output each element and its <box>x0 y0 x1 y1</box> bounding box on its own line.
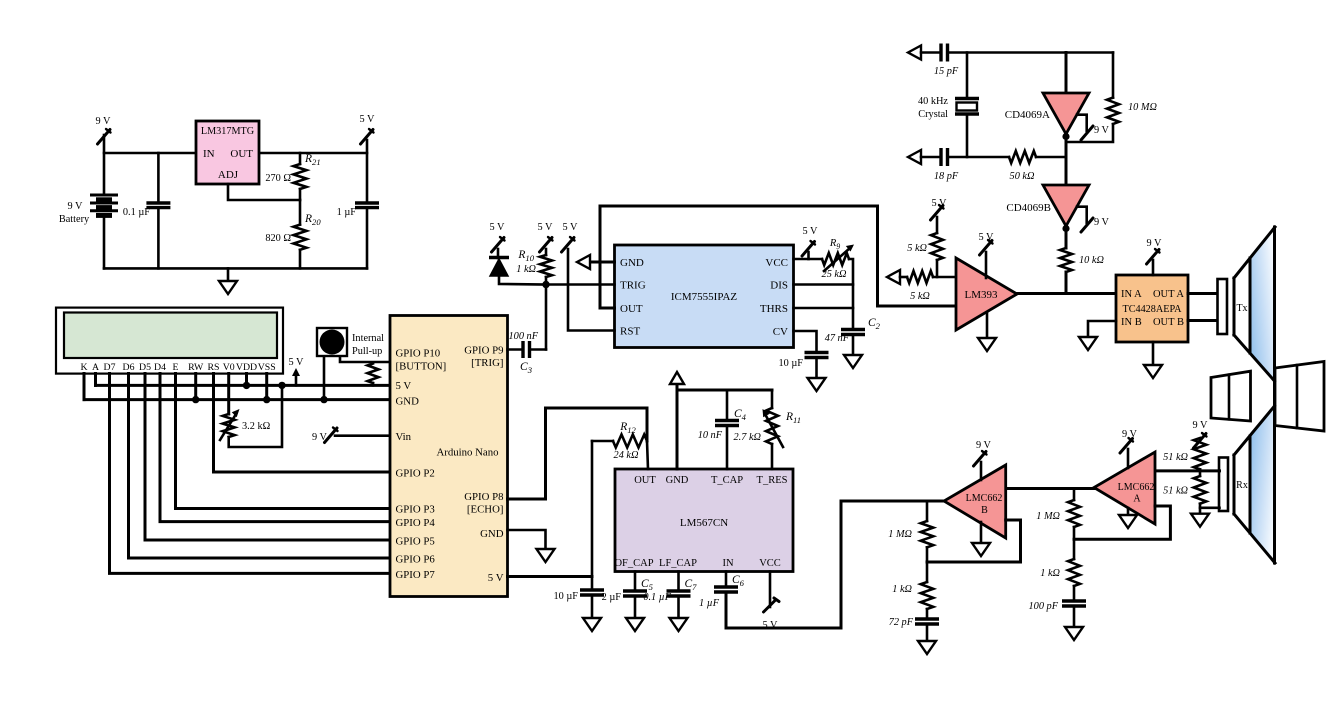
svg-text:LF_CAP: LF_CAP <box>659 558 697 569</box>
svg-text:1 µF: 1 µF <box>337 207 357 218</box>
svg-text:3.2 kΩ: 3.2 kΩ <box>242 421 271 432</box>
svg-text:OUT: OUT <box>620 303 643 315</box>
svg-text:9 V: 9 V <box>1147 238 1163 249</box>
svg-text:GPIO P3: GPIO P3 <box>396 504 435 516</box>
svg-text:GND: GND <box>480 528 504 540</box>
svg-text:IN A: IN A <box>1121 289 1142 300</box>
svg-text:D5: D5 <box>139 362 151 373</box>
svg-text:ADJ: ADJ <box>218 169 239 181</box>
svg-text:5 V: 5 V <box>289 357 305 368</box>
svg-text:CD4069A: CD4069A <box>1005 109 1050 121</box>
svg-text:IN B: IN B <box>1121 317 1142 328</box>
svg-text:100 pF: 100 pF <box>1029 601 1059 612</box>
svg-text:GPIO P10: GPIO P10 <box>396 348 441 360</box>
svg-text:1 MΩ: 1 MΩ <box>888 529 912 540</box>
svg-text:GPIO P8: GPIO P8 <box>464 491 503 503</box>
svg-text:TRIG: TRIG <box>620 280 646 292</box>
svg-text:Pull-up: Pull-up <box>352 346 382 357</box>
svg-text:270 Ω: 270 Ω <box>265 173 291 184</box>
svg-text:Vin: Vin <box>396 431 412 443</box>
svg-text:GND: GND <box>666 475 689 486</box>
svg-text:GPIO P2: GPIO P2 <box>396 468 435 480</box>
svg-text:T_CAP: T_CAP <box>711 475 743 486</box>
svg-text:5 V: 5 V <box>563 222 579 233</box>
svg-text:ICM7555IPAZ: ICM7555IPAZ <box>671 291 737 303</box>
svg-text:B: B <box>981 505 988 516</box>
svg-text:10 MΩ: 10 MΩ <box>1128 102 1157 113</box>
svg-text:Crystal: Crystal <box>918 109 948 120</box>
svg-text:OUT B: OUT B <box>1153 317 1184 328</box>
svg-text:47 nF: 47 nF <box>825 333 850 344</box>
svg-text:[ECHO]: [ECHO] <box>467 504 504 516</box>
svg-text:OUT A: OUT A <box>1153 289 1184 300</box>
svg-text:IN: IN <box>722 558 733 569</box>
svg-text:5 V: 5 V <box>490 222 506 233</box>
svg-text:Rx: Rx <box>1236 480 1248 491</box>
svg-text:1 kΩ: 1 kΩ <box>1040 568 1060 579</box>
svg-text:VDD: VDD <box>236 362 257 373</box>
svg-text:CD4069B: CD4069B <box>1006 202 1051 214</box>
svg-text:9 V: 9 V <box>976 440 992 451</box>
svg-text:72 pF: 72 pF <box>889 617 914 628</box>
svg-text:9 V: 9 V <box>1193 420 1209 431</box>
svg-text:1 kΩ: 1 kΩ <box>516 264 536 275</box>
svg-text:OF_CAP: OF_CAP <box>614 558 653 569</box>
svg-text:24 kΩ: 24 kΩ <box>614 450 639 461</box>
svg-text:15 pF: 15 pF <box>934 66 959 77</box>
svg-text:E: E <box>173 362 179 373</box>
svg-text:D7: D7 <box>104 362 116 373</box>
svg-text:5 kΩ: 5 kΩ <box>910 291 930 302</box>
svg-text:LM317MTG: LM317MTG <box>201 126 255 137</box>
svg-text:GPIO P5: GPIO P5 <box>396 536 435 548</box>
svg-text:0.1 µF: 0.1 µF <box>123 207 150 218</box>
svg-text:1 MΩ: 1 MΩ <box>1036 511 1060 522</box>
svg-text:OUT: OUT <box>634 475 656 486</box>
svg-text:5 V: 5 V <box>396 380 412 392</box>
svg-text:RW: RW <box>188 362 204 373</box>
svg-text:VCC: VCC <box>765 257 788 269</box>
svg-text:9 V: 9 V <box>1094 217 1110 228</box>
svg-text:10 µF: 10 µF <box>778 358 803 369</box>
svg-text:9 V: 9 V <box>1122 429 1138 440</box>
svg-text:VCC: VCC <box>759 558 781 569</box>
svg-text:LMC662: LMC662 <box>966 493 1003 504</box>
svg-text:100 nF: 100 nF <box>509 331 539 342</box>
svg-text:LM393: LM393 <box>965 289 999 301</box>
svg-text:[BUTTON]: [BUTTON] <box>396 361 447 373</box>
svg-text:K: K <box>80 362 87 373</box>
svg-text:9 V: 9 V <box>96 116 112 127</box>
svg-text:5 V: 5 V <box>360 114 376 125</box>
svg-text:DIS: DIS <box>770 280 788 292</box>
svg-text:10 µF: 10 µF <box>553 591 578 602</box>
svg-text:D4: D4 <box>154 362 166 373</box>
svg-text:VSS: VSS <box>258 362 276 373</box>
svg-text:50 kΩ: 50 kΩ <box>1010 171 1035 182</box>
svg-text:GND: GND <box>396 396 420 408</box>
svg-text:5 V: 5 V <box>488 572 504 584</box>
svg-text:LMC662: LMC662 <box>1118 482 1155 493</box>
svg-text:51 kΩ: 51 kΩ <box>1163 486 1188 497</box>
svg-text:GPIO P6: GPIO P6 <box>396 554 436 566</box>
svg-text:OUT: OUT <box>230 148 253 160</box>
svg-text:T_RES: T_RES <box>757 475 788 486</box>
svg-text:A: A <box>92 362 99 373</box>
svg-text:LM567CN: LM567CN <box>680 517 728 529</box>
svg-text:9 V: 9 V <box>312 432 328 443</box>
svg-text:IN: IN <box>203 148 215 160</box>
svg-text:GND: GND <box>620 257 644 269</box>
svg-text:5 V: 5 V <box>803 226 819 237</box>
svg-text:CV: CV <box>773 326 788 338</box>
svg-text:Arduino Nano: Arduino Nano <box>436 447 498 459</box>
svg-text:GPIO P7: GPIO P7 <box>396 569 436 581</box>
svg-text:GPIO P4: GPIO P4 <box>396 517 436 529</box>
svg-text:V0: V0 <box>223 362 235 373</box>
svg-text:2.7 kΩ: 2.7 kΩ <box>734 432 762 443</box>
svg-text:GPIO P9: GPIO P9 <box>464 345 503 357</box>
svg-text:[TRIG]: [TRIG] <box>471 357 503 369</box>
svg-text:Internal: Internal <box>352 333 384 344</box>
svg-text:5 kΩ: 5 kΩ <box>907 243 927 254</box>
svg-text:51 kΩ: 51 kΩ <box>1163 452 1188 463</box>
svg-text:5 V: 5 V <box>932 198 948 209</box>
svg-text:9 V: 9 V <box>1094 125 1110 136</box>
svg-text:5 V: 5 V <box>979 232 995 243</box>
svg-text:5 V: 5 V <box>763 620 779 631</box>
svg-text:A: A <box>1133 494 1141 505</box>
svg-text:40 kHz: 40 kHz <box>918 96 948 107</box>
svg-text:RS: RS <box>208 362 220 373</box>
svg-text:1 µF: 1 µF <box>699 598 720 609</box>
svg-text:9 V: 9 V <box>68 201 84 212</box>
svg-text:THRS: THRS <box>760 303 788 315</box>
svg-text:RST: RST <box>620 326 640 338</box>
svg-text:2 µF: 2 µF <box>602 592 622 603</box>
svg-text:5 V: 5 V <box>538 222 554 233</box>
svg-text:0.1 µF: 0.1 µF <box>643 592 671 603</box>
svg-text:Battery: Battery <box>59 214 90 225</box>
svg-text:TC4428AEPA: TC4428AEPA <box>1122 304 1182 315</box>
svg-text:10 kΩ: 10 kΩ <box>1079 255 1104 266</box>
svg-text:Tx: Tx <box>1236 303 1247 314</box>
svg-text:10 nF: 10 nF <box>698 430 723 441</box>
svg-text:D6: D6 <box>123 362 135 373</box>
svg-text:820 Ω: 820 Ω <box>265 233 291 244</box>
svg-text:25 kΩ: 25 kΩ <box>822 269 847 280</box>
svg-text:18 pF: 18 pF <box>934 171 959 182</box>
svg-text:1 kΩ: 1 kΩ <box>892 584 912 595</box>
